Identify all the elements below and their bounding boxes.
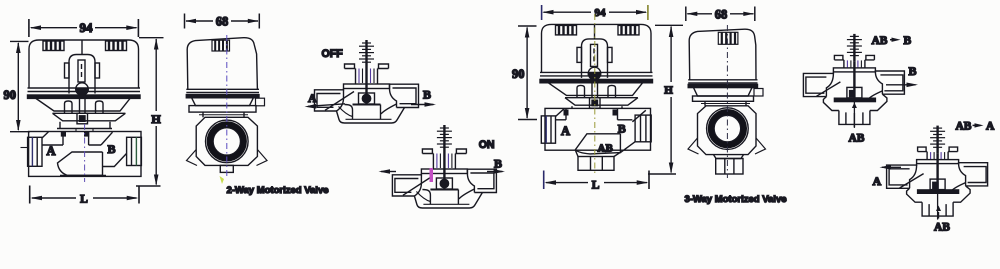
AB to B cross-section valve [803,34,904,128]
centerline (3-way side) [726,25,728,178]
3-way valve body (front view) [541,106,651,170]
svg-text:3-Way Motorized Valve: 3-Way Motorized Valve [684,194,786,205]
svg-text:68: 68 [216,15,229,29]
svg-text:H: H [664,85,673,97]
svg-text:A: A [561,124,570,138]
dimension H (2-way front) [136,38,164,186]
dimension L (2-way front) [30,186,139,206]
A arrow (AB-A) [880,165,902,170]
3-way actuator dome (side view) [689,29,756,80]
AB-B header label [872,35,912,47]
svg-text:B: B [423,88,431,102]
vent slot (2-way side) [212,40,230,51]
3-way side bottom port [714,155,744,174]
svg-text:AB: AB [849,132,865,144]
dimension 68 (3-way side) [686,7,755,22]
dimension 94 (2-way front) [29,19,138,37]
ON cross-section valve [392,125,496,208]
svg-text:B: B [904,35,912,47]
svg-text:A: A [873,174,882,188]
2-way side band [186,89,259,97]
2-way side port circles [206,120,249,163]
svg-text:94: 94 [80,20,94,35]
2-way actuator (front view) [28,40,141,124]
svg-text:H: H [151,112,161,126]
2-way side bottom tab [220,165,233,172]
centerline (2-way front) [84,124,86,182]
B arrow (AB-B) [886,83,918,88]
3-way side flange [693,88,764,106]
2-way actuator dome (side view) [187,38,257,90]
svg-text:L: L [592,180,600,192]
svg-text:AB: AB [956,121,972,133]
svg-text:L: L [80,194,88,206]
port axis stub (2-way front left) [21,147,28,149]
svg-text:B: B [494,157,502,171]
2-way side body [196,117,257,165]
svg-text:ON: ON [479,139,495,151]
dimension 68 (2-way side) [185,14,260,29]
svg-text:AB: AB [598,142,614,154]
AB-A header label [956,121,996,133]
dimension 90 (3-way front) [512,26,537,120]
magenta artifact (ON) [430,168,434,182]
svg-text:68: 68 [715,7,728,21]
2-way side flange [189,98,265,118]
A arrow (OFF) [305,104,346,109]
dimension 90 (2-way front) [4,41,31,131]
svg-text:OFF: OFF [322,48,344,60]
svg-text:90: 90 [512,67,525,81]
3-way side port circles [707,108,749,150]
dimension L (3-way front) [544,171,649,192]
B arrow (OFF) [411,102,436,107]
svg-text:B: B [108,142,116,156]
vent slot (3-way side) [718,32,738,44]
3-way actuator (front view) [540,24,653,108]
svg-text:AB: AB [934,222,950,234]
artifact smudge [220,176,225,184]
3-way side wings [688,138,766,154]
centerline (3-way front) [594,14,596,176]
svg-text:94: 94 [595,7,607,19]
B arrow (ON) [487,169,505,174]
svg-text:A: A [47,144,56,158]
svg-text:B: B [909,64,917,78]
svg-text:A: A [308,91,317,105]
AB arrow (AB-B) [852,103,857,128]
2-way side wings [187,150,268,166]
dimension 94 (3-way front) [542,5,648,20]
svg-text:AB: AB [872,35,888,47]
svg-text:B: B [618,121,626,135]
svg-text:90: 90 [4,88,17,102]
2-way valve body (front view) [28,122,142,177]
dimension H (3-way front) [648,25,683,174]
centerline (2-way side) [226,35,228,177]
AB arrow (AB-A) [936,206,941,219]
left arrow (ON) [379,169,397,174]
AB to A cross-section valve [887,126,988,220]
svg-text:2-Way Motorized Valve: 2-Way Motorized Valve [226,185,328,196]
OFF cross-section valve [315,40,419,123]
3-way side body [698,106,757,155]
svg-text:A: A [986,121,995,133]
3-way side band [688,80,757,88]
